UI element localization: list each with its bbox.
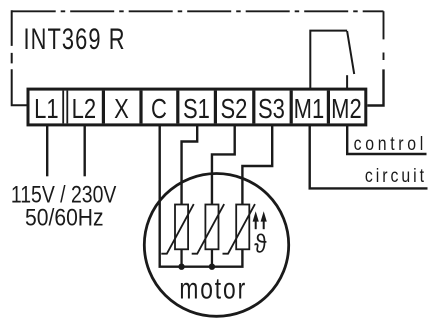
wire L2 down [83, 125, 85, 176]
thermistor R2 box [205, 205, 218, 250]
terminal cell divider S1|S2 [214, 91, 217, 124]
svg-text:C: C [151, 94, 167, 125]
thermistor bottom stub 1 [180, 249, 182, 266]
terminal cell divider X|C [139, 91, 142, 124]
wire S1 to thermistor 1 [182, 125, 198, 205]
device boundary dash-dot top [12, 10, 384, 12]
relay contact from M1 [310, 31, 347, 90]
svg-text:circuit: circuit [365, 165, 424, 187]
svg-text:M2: M2 [331, 94, 362, 125]
motor circle [144, 174, 288, 317]
thermistor R2 diagonal [192, 204, 224, 254]
thermistor R3 box [236, 205, 249, 250]
wire S3 to thermistor 3 [242, 125, 272, 205]
svg-text:control: control [354, 132, 424, 154]
temperature arrow 2 [261, 211, 267, 229]
thermistor R3 diagonal [223, 204, 255, 254]
wire L1 down [46, 125, 48, 176]
terminal cell divider S3|M1 [290, 91, 293, 124]
svg-text:ϑ: ϑ [254, 230, 267, 259]
terminal cell divider S2|S3 [252, 91, 255, 124]
svg-text:S1: S1 [183, 94, 210, 125]
relay contact blade [347, 31, 354, 74]
junction dot 2 [209, 264, 215, 270]
wire C down to motor bus [160, 125, 243, 267]
terminal block outer frame [28, 89, 366, 125]
terminal cell divider L2|X [102, 91, 105, 124]
svg-text:S3: S3 [258, 94, 285, 125]
terminal cell divider M1|M2 [327, 91, 330, 124]
thermistor R1 diagonal [161, 204, 193, 254]
thermistor R1 box [175, 205, 188, 250]
relay contact fixed stub M2 [346, 75, 348, 90]
terminal cell divider L1|L2 [63, 91, 67, 124]
temperature arrow 1 [253, 211, 259, 229]
device boundary dash-dot left [12, 10, 28, 105]
wire S2 to thermistor 2 [212, 125, 235, 205]
svg-text:X: X [114, 94, 129, 125]
thermistor bottom stub 2 [211, 249, 213, 266]
svg-text:L1: L1 [34, 94, 58, 125]
svg-text:S2: S2 [220, 94, 247, 125]
svg-text:INT369 R: INT369 R [24, 21, 126, 55]
svg-text:L2: L2 [72, 94, 96, 125]
device boundary dash-dot right [383, 11, 385, 60]
junction dot 1 [178, 264, 184, 270]
svg-text:M1: M1 [294, 94, 325, 125]
wire M2 down to control line [347, 125, 426, 154]
wire M2 right to boundary [367, 69, 383, 105]
svg-text:50/60Hz: 50/60Hz [25, 204, 104, 231]
wire M1 down to circuit line [310, 125, 428, 188]
svg-text:motor: motor [179, 271, 247, 305]
terminal cell divider C|S1 [176, 91, 179, 124]
